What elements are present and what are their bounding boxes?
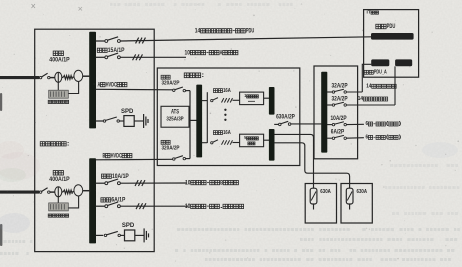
svg-text:B: B: [220, 179, 223, 186]
wire 630A/2P output into DC dist box busbar: [291, 123, 322, 125]
svg-text:320A/2P: 320A/2P: [161, 146, 179, 152]
label: dianliu-ceshiyi (current meter) B: [48, 214, 51, 217]
DC PDU bar 2 (black): [395, 59, 412, 66]
svg-text:): ): [399, 121, 402, 127]
label: three-phase 400A/1P (B input): [53, 171, 58, 176]
row B1: breaker to aircon B input: [96, 182, 105, 184]
wire SPD to ground B: [135, 234, 144, 236]
svg-text:400A/1P: 400A/1P: [49, 57, 70, 64]
label: single-phase 6A/1P (B2): [101, 198, 106, 202]
svg-text:630A/2P: 630A/2P: [276, 114, 295, 120]
svg-text:HVDC: HVDC: [106, 81, 118, 88]
wire R1 up to DC PDU bar1: [362, 64, 371, 92]
switch Q-B 400A/1P: [39, 191, 41, 193]
IT cabinet box: [364, 10, 419, 78]
svg-text:PDU_A: PDU_A: [374, 70, 387, 76]
svg-text:10A/1P: 10A/1P: [112, 173, 129, 180]
SPD row B: breaker: [96, 234, 104, 236]
svg-text:(: (: [386, 135, 389, 141]
breaker 630A/2P: [274, 123, 278, 125]
svg-text:ATS: ATS: [171, 110, 179, 116]
row A2: 15A breaker to aircon A input: [96, 56, 105, 58]
svg-text:(: (: [386, 121, 389, 127]
wire: CT1 secondary down to meter box: [57, 82, 59, 90]
AC PDU bar (black): [371, 33, 414, 40]
svg-text:32A/2P: 32A/2P: [331, 97, 347, 103]
CT secondaries to meter box B: [57, 197, 59, 203]
label: single-phase 15A/1P (A): [97, 48, 102, 52]
wire: CT2 secondary L-path to meter box: [68, 81, 78, 93]
svg-text:A: A: [220, 49, 223, 56]
DC distribution box: [314, 66, 358, 159]
label: bianliugui (converter cabinet): [184, 73, 189, 78]
svg-text:325A/3P: 325A/3P: [166, 117, 184, 123]
fuse 630A (2): [346, 188, 353, 204]
row R2 breaker 32A/2P: [327, 104, 332, 106]
svg-text:-: -: [206, 203, 209, 210]
svg-text:630A: 630A: [320, 189, 331, 195]
label: jiaozhi-peidianping (panel name): [40, 142, 45, 146]
svg-text:PDU: PDU: [246, 28, 255, 35]
label: three-phase 400A/1P (A input): [53, 51, 58, 56]
svg-text:-: -: [232, 28, 235, 35]
meter box: current test device (A) gray block: [49, 90, 69, 98]
svg-text:16A: 16A: [223, 88, 231, 94]
svg-text:B: B: [102, 152, 105, 159]
svg-text:14: 14: [195, 28, 201, 35]
svg-text:16A: 16A: [223, 130, 231, 136]
svg-text:IT: IT: [367, 9, 371, 15]
label: three-phase 16A (module row 1): [213, 89, 217, 93]
ground symbol A: [143, 114, 145, 128]
svg-text:400A/1P: 400A/1P: [49, 176, 70, 183]
ellipsis dots between module rows: [224, 109, 226, 111]
converter cabinet box (bianliugui): [157, 68, 299, 166]
feeder vertical to module breakers: [206, 92, 208, 143]
svg-text:SPD: SPD: [121, 109, 134, 115]
ghost bleed-through text (very light): [110, 3, 113, 6]
svg-text:10: 10: [185, 179, 191, 186]
DC PDU bar 1 (black): [371, 59, 389, 66]
DC busbar lower segment: [269, 129, 275, 161]
ground symbol B: [143, 228, 145, 242]
svg-text:): ): [399, 135, 402, 141]
wire into fuse 2: [349, 184, 351, 189]
label: three-phase 16A (module row M): [213, 131, 217, 135]
wire moduleM to DC busbar: [264, 139, 270, 141]
row A1: 15A breaker to AC PDU: [96, 40, 105, 42]
svg-text:M: M: [244, 135, 246, 141]
wire: B mains input stub (thick): [0, 191, 39, 194]
wire SPD to ground A: [134, 120, 143, 122]
wire: CT2 to busbar A: [72, 76, 74, 78]
SPD device box B: [125, 230, 135, 241]
svg-text:10: 10: [185, 203, 191, 210]
switch Q-A 400A/1P: [39, 76, 41, 78]
svg-text:14: 14: [366, 84, 372, 90]
svg-text:10A/2P: 10A/2P: [330, 116, 346, 122]
svg-text:6A/1P: 6A/1P: [111, 197, 125, 204]
svg-text:15A/1P: 15A/1P: [108, 47, 125, 54]
wire: CT1-coil: [62, 76, 63, 78]
meter box: current test device (B) gray block: [49, 203, 69, 211]
left panel box (AC/DC distribution cabinet): [35, 29, 155, 251]
CT1 (A) current transformer: [55, 72, 62, 82]
wire: A mains input stub (thick): [0, 76, 39, 79]
breaker 16A row M: [211, 142, 213, 144]
svg-text:-: -: [373, 121, 376, 127]
label: three-phase 320A/2P (B side): [161, 140, 165, 144]
wire: switch to CT1: [50, 77, 55, 79]
CT1 (B): [55, 187, 62, 197]
fuse 630A (1): [310, 188, 317, 204]
svg-text:6A/2P: 6A/2P: [331, 129, 344, 135]
breaker 320A/2P (B input): [173, 158, 175, 160]
CT2 (A) current transformer: [74, 70, 83, 81]
wire: DC busbar to battery fuse box 1: [274, 134, 313, 183]
label: AC PDU (jiaoliu PDU): [376, 24, 381, 29]
SPD row A: breaker: [96, 120, 104, 122]
svg-text:PDU: PDU: [387, 23, 396, 30]
row B2: breaker to monitoring/fire outputs: [96, 205, 105, 207]
wire into fuse 1: [313, 184, 315, 189]
row R1 breaker 32A/2P: [327, 91, 332, 93]
svg-text:A: A: [97, 81, 100, 88]
label: dianliu-ceshiyi (current meter) A: [48, 100, 51, 103]
label: DC PDU_A (zhiliu PDU_A): [364, 70, 368, 74]
AC busbar (converter cabinet): [196, 85, 202, 158]
rectifier module box M: [240, 134, 264, 147]
svg-text:320A/2P: 320A/2P: [161, 81, 179, 87]
svg-text:-: -: [373, 135, 376, 141]
SPD device box A: [124, 116, 134, 127]
CT2 (B): [74, 185, 83, 196]
label: three-phase 320A/2P (A side): [161, 75, 165, 79]
row R4 breaker 6A/2P: [327, 137, 332, 139]
svg-text:14: 14: [358, 96, 364, 102]
wire module1 to DC busbar: [264, 97, 270, 99]
svg-text::: :: [201, 72, 204, 79]
breaker 320A/2P (A input): [173, 89, 175, 91]
svg-text::: :: [67, 141, 70, 148]
battery fuse box 2: [341, 184, 372, 224]
row R3 breaker 10A/2P: [327, 124, 332, 126]
ATS junction vertical wire: [189, 91, 191, 159]
breaker 16A row1: [211, 99, 213, 101]
coil / zigzag element (B): [63, 190, 72, 194]
stray pen x-marks top: [32, 4, 36, 8]
svg-text:10: 10: [185, 49, 191, 56]
svg-text:32A/2P: 32A/2P: [331, 84, 347, 90]
left edge scan artifact marks: [0, 93, 2, 111]
svg-text:-: -: [207, 179, 210, 186]
busbar A (left box upper): [89, 32, 96, 129]
battery fuse box 1: [305, 184, 336, 224]
wire R2 up to DC PDU bar2: [394, 66, 396, 105]
svg-text:-: -: [206, 49, 209, 56]
svg-text:HVDC: HVDC: [111, 152, 123, 159]
wire ATS output to AC busbar: [190, 119, 197, 121]
pink smudge left-middle: [0, 152, 40, 180]
DC busbar upper segment: [269, 87, 275, 115]
svg-text:630A: 630A: [357, 189, 368, 195]
ATS box 325A/3P: [161, 106, 189, 127]
wire: DC busbar to battery fuse box 2: [274, 143, 349, 184]
rectifier module box 1: [240, 92, 264, 105]
label: single-phase 10A/1P (B1): [102, 174, 107, 178]
coil / zigzag element (A): [63, 76, 72, 80]
svg-text:SPD: SPD: [122, 223, 135, 229]
busbar B (left box lower): [89, 158, 96, 243]
DC dist busbar: [321, 72, 327, 153]
